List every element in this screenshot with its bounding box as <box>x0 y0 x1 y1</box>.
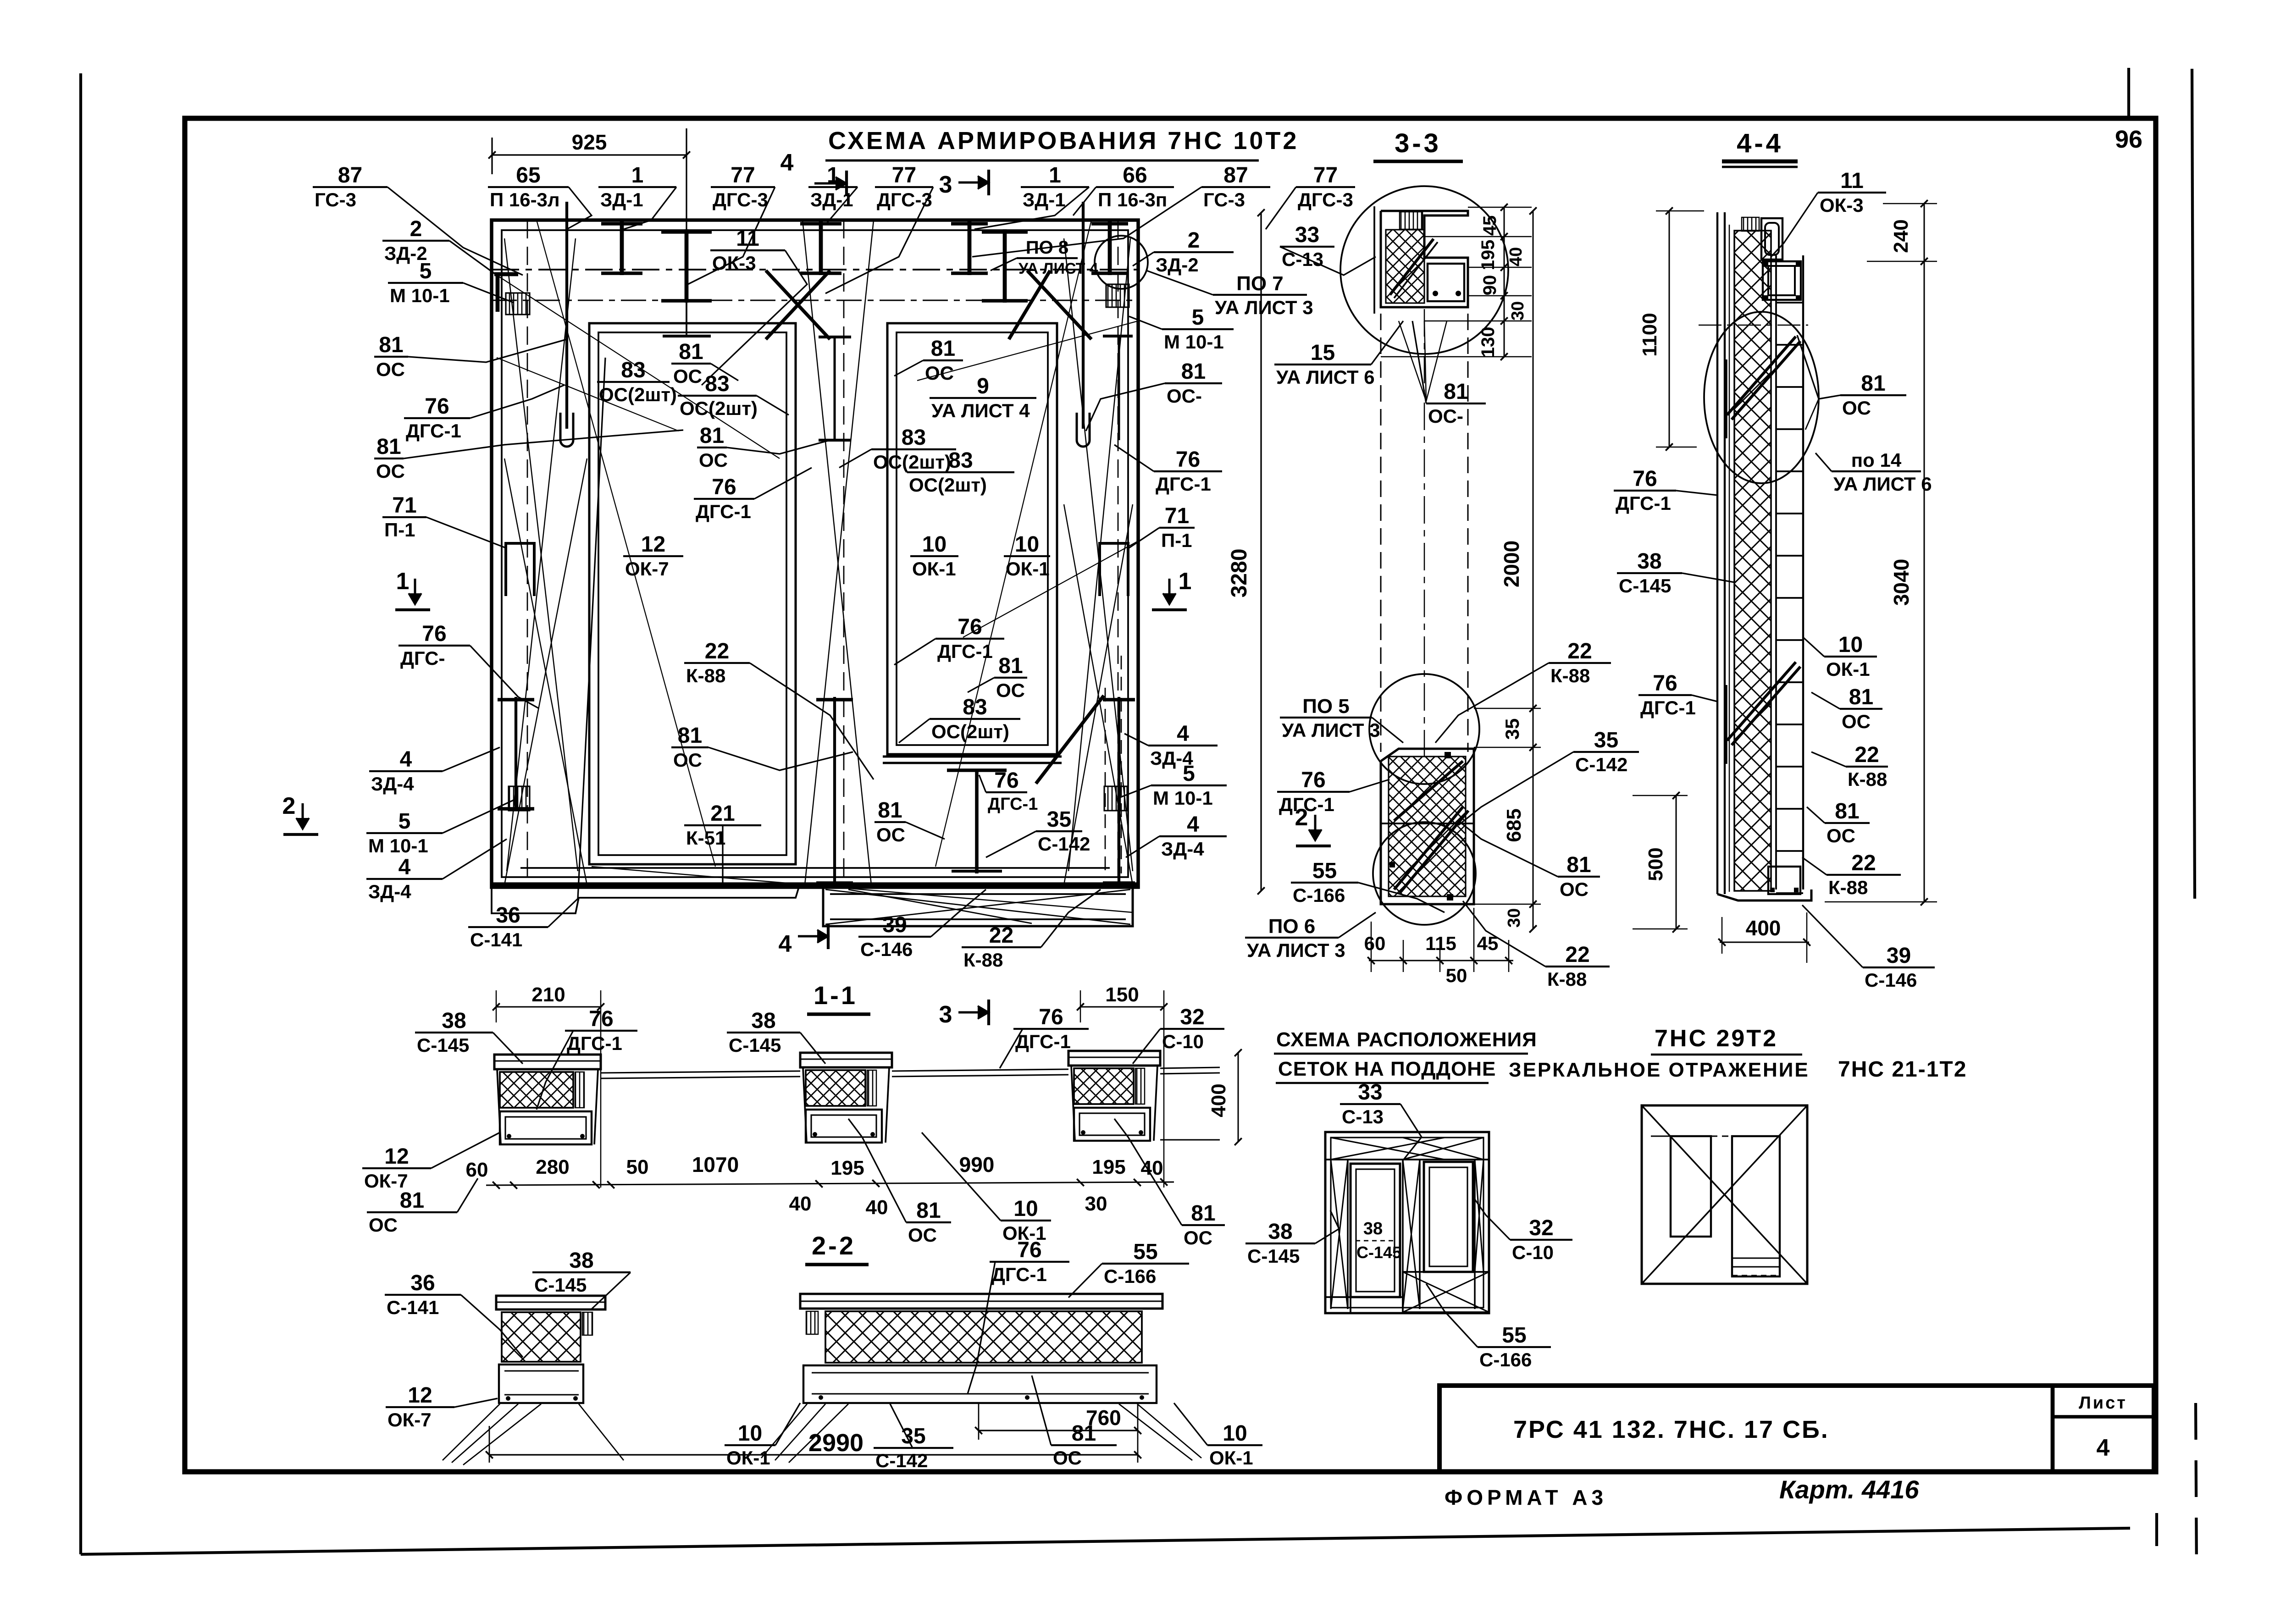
svg-text:ОС(2шт): ОС(2шт) <box>680 398 758 419</box>
svg-text:12: 12 <box>641 532 665 557</box>
svg-text:1: 1 <box>396 568 410 595</box>
svg-text:4: 4 <box>1177 722 1189 746</box>
label 81/ОС- <box>1412 321 1486 427</box>
svg-text:195: 195 <box>1478 240 1498 271</box>
label 33/С-13 <box>1280 223 1376 275</box>
4-4 detail ellipse <box>1704 312 1819 483</box>
svg-text:22: 22 <box>705 639 729 663</box>
svg-text:81: 81 <box>878 798 902 823</box>
label 76/ДГС-1 <box>979 768 1038 814</box>
svg-text:5: 5 <box>1192 305 1204 330</box>
svg-text:81: 81 <box>400 1188 424 1213</box>
svg-text:С-142: С-142 <box>1575 754 1627 775</box>
label 38/С-145 <box>1245 1210 1339 1267</box>
3-3 bottom detail diagonal bars <box>1394 807 1463 889</box>
svg-text:С-166: С-166 <box>1479 1349 1532 1370</box>
svg-text:130: 130 <box>1478 327 1498 358</box>
left pallet right strip <box>1474 1160 1476 1309</box>
2-2 right block fan leaders <box>761 1404 807 1458</box>
panel bottom band upper thin line <box>520 867 1110 869</box>
svg-text:115: 115 <box>1425 933 1456 954</box>
rebar T-bar 5 <box>1003 229 1007 303</box>
svg-text:10: 10 <box>922 532 947 557</box>
svg-text:УА ЛИСТ 3: УА ЛИСТ 3 <box>1215 297 1313 318</box>
label 1/ЗД-1 <box>808 163 858 225</box>
svg-text:30: 30 <box>1085 1193 1107 1215</box>
svg-text:40: 40 <box>866 1196 888 1219</box>
right edge dashed verticals lower <box>1105 688 1106 871</box>
svg-text:500: 500 <box>1644 847 1667 881</box>
svg-text:30: 30 <box>1505 908 1524 928</box>
svg-text:П 16-3л: П 16-3л <box>490 189 560 210</box>
svg-text:ДГС-1: ДГС-1 <box>1015 1031 1071 1052</box>
svg-text:С-166: С-166 <box>1104 1265 1156 1287</box>
svg-text:76: 76 <box>1633 467 1657 491</box>
3-3 top detail left edge line <box>1373 206 1375 314</box>
3-3 bottom dims 60/115/45/50 <box>1369 960 1513 961</box>
right pallet header line <box>1651 1135 1671 1137</box>
window edge bar left-top <box>834 337 836 440</box>
svg-text:4: 4 <box>779 931 792 957</box>
window edge bar right-bottom <box>1118 697 1120 885</box>
svg-text:71: 71 <box>392 493 416 518</box>
1-1 dim 210 <box>496 1006 601 1008</box>
svg-text:ОК-1: ОК-1 <box>1006 558 1050 580</box>
svg-text:ОС(2шт): ОС(2шт) <box>599 384 677 405</box>
3-3 bottom detail crosshatch <box>1389 757 1466 896</box>
svg-text:ДГС-3: ДГС-3 <box>1298 189 1353 210</box>
3-3 top detail diagonal bar <box>1390 239 1434 295</box>
4-4 short bar left <box>1724 359 1727 438</box>
svg-text:55: 55 <box>1133 1240 1157 1264</box>
label 81/ОС <box>374 430 683 482</box>
rebar T-bar 2 <box>685 229 689 303</box>
svg-text:36: 36 <box>496 903 520 928</box>
svg-text:76: 76 <box>425 394 449 419</box>
svg-text:ОС: ОС <box>1184 1227 1212 1248</box>
svg-text:ДГС-1: ДГС-1 <box>1279 794 1334 815</box>
svg-text:ОС: ОС <box>876 824 905 845</box>
svg-text:32: 32 <box>1180 1005 1204 1029</box>
label 10/ОК-1 <box>922 1132 1051 1244</box>
svg-text:3-3: 3-3 <box>1395 128 1441 158</box>
3-3 top detail outline <box>1381 211 1468 307</box>
panel bottom thick band <box>492 882 1138 887</box>
diagonal brace right bottom <box>1036 696 1104 784</box>
title block divider horizontal <box>2053 1415 2154 1419</box>
svg-text:5: 5 <box>420 259 432 283</box>
svg-text:76: 76 <box>1017 1238 1041 1262</box>
svg-text:ОС: ОС <box>1560 878 1589 900</box>
svg-text:280: 280 <box>536 1156 569 1178</box>
4-4 inclined bar in ellipse <box>1727 337 1796 415</box>
svg-text:1100: 1100 <box>1638 313 1661 356</box>
long edge bar right with hook <box>1082 202 1085 429</box>
svg-text:Лист: Лист <box>2079 1393 2127 1413</box>
2-2 left block lower <box>499 1364 583 1403</box>
svg-text:76: 76 <box>712 475 736 499</box>
svg-text:1-1: 1-1 <box>814 981 858 1010</box>
label 81/ОС <box>875 798 945 845</box>
svg-text:76: 76 <box>1301 768 1325 792</box>
3-3 top detail crosshatch <box>1386 230 1424 303</box>
П-shaped bar left <box>506 543 534 596</box>
label 83/ОС(2шт) <box>899 695 1020 743</box>
svg-text:83: 83 <box>963 695 987 719</box>
svg-text:ДГС-1: ДГС-1 <box>406 420 461 442</box>
svg-text:35: 35 <box>1501 718 1523 740</box>
svg-text:81: 81 <box>1181 359 1206 384</box>
label 22/К-88 <box>1811 743 1888 790</box>
svg-text:240: 240 <box>1890 219 1912 253</box>
svg-text:ПО 6: ПО 6 <box>1268 915 1316 938</box>
panel bottom right pocket diagonals <box>825 889 1130 924</box>
svg-text:77: 77 <box>1313 163 1338 188</box>
label 76/ДГС-1 <box>1638 671 1717 718</box>
rebar T-bar 1 <box>620 221 624 275</box>
label ПО 8/УА ЛИСТ 4 <box>991 238 1098 277</box>
4-4 dim 1100 vertical <box>1669 211 1670 447</box>
label 38/С-145 <box>1617 549 1734 597</box>
3-3 dim 2000 vertical <box>1533 211 1534 929</box>
page top-right tick <box>2127 68 2130 118</box>
4-4 lower inclined bar <box>1727 662 1796 740</box>
svg-text:С-142: С-142 <box>1038 833 1090 855</box>
4-4 dim 400 bottom <box>1720 942 1809 943</box>
svg-text:К-88: К-88 <box>1848 768 1887 790</box>
svg-text:М 10-1: М 10-1 <box>1164 331 1224 353</box>
label 15/УА ЛИСТ 6 <box>1274 321 1403 388</box>
svg-text:ОС: ОС <box>1842 397 1871 419</box>
2-2 right block lower <box>803 1365 1157 1403</box>
1-1 pedestal crosshatch <box>806 1070 865 1106</box>
3-3 label leader fan <box>1399 321 1426 401</box>
svg-text:81: 81 <box>1566 853 1591 877</box>
svg-text:ОК-1: ОК-1 <box>1209 1447 1253 1469</box>
svg-text:76: 76 <box>1039 1005 1063 1029</box>
svg-text:УА ЛИСТ 3: УА ЛИСТ 3 <box>1247 939 1345 961</box>
svg-text:3280: 3280 <box>1227 549 1251 598</box>
rebar T-bar center <box>819 221 823 275</box>
П-shaped bar right <box>1100 543 1128 596</box>
svg-text:71: 71 <box>1165 504 1189 528</box>
4-4 head plate box <box>1763 261 1801 300</box>
svg-text:55: 55 <box>1312 859 1337 883</box>
label 33/С-13 <box>1340 1080 1422 1160</box>
svg-text:С-145: С-145 <box>1247 1245 1300 1267</box>
svg-text:81: 81 <box>998 654 1023 678</box>
svg-text:4: 4 <box>399 855 411 879</box>
label 4/ЗД-4 <box>1124 722 1218 769</box>
4-4 lower short bar <box>1724 685 1727 764</box>
svg-text:22: 22 <box>1567 639 1592 663</box>
label 2/ЗД-2 <box>1133 228 1234 276</box>
svg-text:925: 925 <box>572 130 607 154</box>
label по 14/УА ЛИСТ 6 <box>1816 449 1932 495</box>
1-1 pedestal rebar box <box>500 1111 592 1144</box>
1-1 pedestal plate <box>494 1055 601 1069</box>
svg-text:400: 400 <box>1746 916 1781 940</box>
left pallet scheme outer <box>1325 1132 1489 1313</box>
label 5/М 10-1 <box>1119 762 1227 809</box>
left pallet top band X braces <box>1331 1138 1445 1160</box>
svg-text:22: 22 <box>1854 743 1879 767</box>
label 21/К-51 <box>684 801 761 885</box>
page outer border bottom <box>81 1528 2130 1554</box>
svg-text:4: 4 <box>2097 1435 2110 1461</box>
long edge bar left with hook <box>565 202 568 429</box>
label 71/П-1 <box>382 493 506 548</box>
svg-text:ЗД-4: ЗД-4 <box>368 881 411 902</box>
svg-text:ДГС-: ДГС- <box>400 647 445 669</box>
label 22/К-88 <box>962 889 1101 971</box>
1-1 dim row <box>486 1182 1174 1185</box>
1-1 dim 150 <box>1080 1006 1164 1008</box>
svg-text:400: 400 <box>1207 1083 1230 1117</box>
right pallet scheme outer <box>1642 1105 1807 1284</box>
label 81/ОС <box>697 424 830 471</box>
4-4 crosshatch band <box>1734 231 1771 891</box>
svg-text:4: 4 <box>400 747 412 772</box>
svg-text:21: 21 <box>710 801 735 826</box>
svg-text:76: 76 <box>1653 671 1677 696</box>
svg-text:81: 81 <box>931 337 955 361</box>
svg-text:ОК-1: ОК-1 <box>726 1447 770 1469</box>
svg-text:760: 760 <box>1086 1406 1121 1430</box>
label 2/ЗД-2 <box>382 217 497 275</box>
left pallet window right <box>1424 1162 1473 1272</box>
svg-text:38: 38 <box>1268 1220 1292 1244</box>
svg-text:СХЕМА АРМИРОВАНИЯ 7НС 10Т2: СХЕМА АРМИРОВАНИЯ 7НС 10Т2 <box>828 127 1299 155</box>
svg-text:76: 76 <box>1176 447 1200 472</box>
svg-text:УА ЛИСТ 6: УА ЛИСТ 6 <box>1833 473 1932 495</box>
drawing frame <box>185 118 2156 1472</box>
thin long diagonals center <box>803 220 871 885</box>
svg-text:39: 39 <box>1887 944 1911 968</box>
1-1 dim 400 right <box>1238 1053 1239 1142</box>
svg-text:3: 3 <box>939 171 952 198</box>
svg-text:ДГС-1: ДГС-1 <box>696 501 751 522</box>
dim 925 <box>492 154 686 155</box>
svg-text:36: 36 <box>410 1271 435 1295</box>
label 83/ОС(2шт) <box>597 358 677 405</box>
svg-text:38: 38 <box>442 1009 466 1033</box>
svg-text:ЗД-1: ЗД-1 <box>1023 189 1066 210</box>
svg-text:ГС-3: ГС-3 <box>1203 189 1245 210</box>
svg-text:38: 38 <box>751 1009 775 1033</box>
4-4 strip left edge double line <box>1716 212 1718 894</box>
svg-text:96: 96 <box>2115 126 2142 153</box>
svg-text:УА ЛИСТ 6: УА ЛИСТ 6 <box>1276 366 1375 388</box>
label 1/ЗД-1 <box>598 163 676 229</box>
rebar T-bar 6 right <box>1108 221 1112 275</box>
label 5/М 10-1 <box>1129 305 1234 353</box>
svg-text:3040: 3040 <box>1889 559 1913 606</box>
svg-text:45: 45 <box>1480 215 1500 236</box>
svg-text:10: 10 <box>1223 1421 1247 1446</box>
label 76/ДГС- <box>399 622 539 708</box>
diagonal brace right window top <box>1027 271 1091 339</box>
left pallet window left <box>1351 1164 1400 1297</box>
svg-text:С-141: С-141 <box>387 1297 439 1318</box>
left pallet left strip <box>1347 1160 1349 1309</box>
label 76/ДГС-1 <box>537 1007 637 1110</box>
4-4 bottom bar box <box>1768 867 1800 894</box>
axis dash-dot line lower <box>492 300 1138 301</box>
label 22/К-88 <box>1463 901 1610 990</box>
3-3 wall cut dashed edges <box>1380 314 1382 752</box>
svg-text:38: 38 <box>1363 1219 1383 1238</box>
label 4/ЗД-4 <box>369 747 500 795</box>
label 35/С-142 <box>874 1403 953 1471</box>
left lower edge bar <box>515 697 517 811</box>
label 83/ОС(2шт) <box>839 425 956 473</box>
svg-text:С-13: С-13 <box>1282 249 1323 270</box>
label 38/С-145 inside window <box>1356 1219 1401 1262</box>
1-1 pedestal sides <box>803 1067 807 1143</box>
label 39/С-146 <box>858 889 986 960</box>
svg-text:65: 65 <box>516 163 540 188</box>
svg-text:77: 77 <box>892 163 916 188</box>
svg-text:7РС 41 132. 7НС. 17 СБ.: 7РС 41 132. 7НС. 17 СБ. <box>1513 1416 1829 1443</box>
svg-text:33: 33 <box>1358 1080 1382 1105</box>
4-4 ladder rungs <box>1776 302 1803 304</box>
svg-text:М 10-1: М 10-1 <box>368 835 428 856</box>
3-3 top detail anchor grid <box>1400 212 1423 229</box>
svg-text:195: 195 <box>1092 1156 1125 1178</box>
right window sill double line <box>883 756 1062 758</box>
svg-text:2: 2 <box>1188 228 1200 253</box>
svg-text:ОС: ОС <box>925 362 954 384</box>
vertical joint dash line left <box>527 220 528 885</box>
2-2 left block crosshatch <box>502 1312 581 1362</box>
right pallet bottom lines <box>1732 1257 1780 1259</box>
label 32/С-10 <box>1473 1197 1572 1263</box>
svg-text:81: 81 <box>1191 1201 1215 1226</box>
svg-text:ОК-7: ОК-7 <box>625 558 669 580</box>
svg-text:ОС: ОС <box>699 449 728 471</box>
label 71/П-1 <box>1129 504 1195 551</box>
svg-text:ДГС-1: ДГС-1 <box>937 641 993 662</box>
label 76/ДГС-1 <box>1277 768 1389 815</box>
2-2 right block plate <box>800 1294 1162 1309</box>
svg-text:40: 40 <box>789 1193 812 1215</box>
svg-text:1070: 1070 <box>692 1153 739 1177</box>
svg-text:12: 12 <box>408 1383 432 1408</box>
label 35/С-142 <box>986 807 1090 857</box>
label 10/ОК-1 <box>1174 1403 1262 1469</box>
svg-text:81: 81 <box>376 435 401 459</box>
svg-text:7НС 29Т2: 7НС 29Т2 <box>1655 1025 1778 1052</box>
svg-text:ГС-3: ГС-3 <box>315 189 356 210</box>
vertical joint dash line center <box>843 220 845 885</box>
label 36/С-141 <box>385 1271 523 1357</box>
label 66/П 16-3п <box>1073 163 1174 215</box>
axis dash-dot line upper <box>492 269 1138 271</box>
svg-text:5: 5 <box>1183 762 1195 786</box>
svg-text:ПО 7: ПО 7 <box>1236 272 1284 295</box>
svg-text:40: 40 <box>1506 247 1526 266</box>
left window opening <box>589 323 796 864</box>
label ПО 5/УА ЛИСТ 3 <box>1280 695 1403 743</box>
label 81/ОС <box>374 333 567 380</box>
left pallet bottom right band <box>1403 1272 1489 1312</box>
svg-text:УА ЛИСТ 4: УА ЛИСТ 4 <box>1018 260 1098 277</box>
label 55/С-166 <box>1291 859 1445 912</box>
svg-text:11: 11 <box>1840 169 1864 193</box>
label 32/С-10 <box>1133 1005 1224 1064</box>
svg-text:7НС 21-1Т2: 7НС 21-1Т2 <box>1838 1057 1967 1082</box>
svg-text:С-146: С-146 <box>1865 969 1917 991</box>
svg-text:10: 10 <box>1013 1197 1038 1221</box>
extra leader crossing lines <box>497 275 780 458</box>
svg-text:ФОРМАТ А3: ФОРМАТ А3 <box>1445 1486 1607 1509</box>
label 55/С-166 <box>1068 1240 1189 1298</box>
label 76/ДГС-1 <box>404 385 564 442</box>
label 65/П 16-3л <box>488 163 592 229</box>
svg-text:87: 87 <box>1223 163 1248 188</box>
2-2 right block crosshatch <box>825 1311 1142 1363</box>
label 81/ОС <box>1797 335 1906 419</box>
right pallet X diagonals <box>1642 1105 1807 1284</box>
title block divider vertical <box>2051 1386 2055 1472</box>
svg-text:СХЕМА РАСПОЛОЖЕНИЯ: СХЕМА РАСПОЛОЖЕНИЯ <box>1276 1028 1537 1051</box>
label 81/ОС <box>367 1178 478 1236</box>
svg-text:2: 2 <box>282 793 296 819</box>
label 9/УА ЛИСТ 4 <box>930 374 1036 421</box>
svg-text:1: 1 <box>631 163 644 188</box>
svg-text:ЗЕРКАЛЬНОЕ ОТРАЖЕНИЕ: ЗЕРКАЛЬНОЕ ОТРАЖЕНИЕ <box>1509 1059 1810 1081</box>
svg-text:76: 76 <box>422 622 446 646</box>
label 76/ДГС-1 <box>1000 1005 1089 1068</box>
page outer border right (broken) <box>2192 69 2195 899</box>
svg-text:ДГС-1: ДГС-1 <box>567 1033 622 1054</box>
svg-text:990: 990 <box>959 1153 995 1177</box>
svg-text:ОС(2шт): ОС(2шт) <box>873 451 951 473</box>
svg-text:К-88: К-88 <box>686 665 725 686</box>
label 12/ОК-7 <box>386 1383 498 1431</box>
svg-text:5: 5 <box>399 809 411 834</box>
label 81/ОС <box>1807 799 1870 846</box>
label 81/ОС <box>1032 1375 1117 1469</box>
svg-text:ДГС-3: ДГС-3 <box>713 189 768 210</box>
label 11/ОК-3 <box>702 226 807 385</box>
dim 3280 vertical <box>1260 213 1262 891</box>
svg-text:ЗД-1: ЗД-1 <box>600 189 643 210</box>
svg-text:32: 32 <box>1529 1216 1553 1240</box>
label 76/ДГС-1 <box>1614 467 1717 514</box>
svg-text:Карт. 4416: Карт. 4416 <box>1779 1475 1919 1504</box>
svg-text:ОС: ОС <box>908 1224 937 1246</box>
svg-text:С-145: С-145 <box>729 1034 781 1056</box>
svg-text:С-141: С-141 <box>470 929 522 950</box>
label 22/К-88 <box>1802 851 1901 898</box>
label 87/ГС-3 <box>972 163 1270 257</box>
svg-text:60: 60 <box>1364 933 1386 954</box>
svg-text:81: 81 <box>1861 371 1885 396</box>
svg-text:С-146: С-146 <box>860 939 913 960</box>
svg-text:87: 87 <box>338 163 362 188</box>
label 10/ОК-1 <box>725 1403 800 1469</box>
svg-text:С-145: С-145 <box>1619 575 1671 597</box>
page outer border left <box>79 73 82 1554</box>
right edge anchor grid bottom <box>1104 786 1127 811</box>
svg-text:83: 83 <box>948 448 973 473</box>
svg-text:2000: 2000 <box>1500 541 1523 587</box>
svg-text:1: 1 <box>827 163 839 188</box>
rebar T-bar 4 <box>968 221 972 275</box>
label 81/ОС <box>1811 685 1882 732</box>
